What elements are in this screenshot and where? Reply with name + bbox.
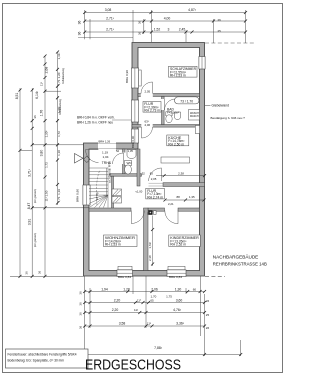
svg-text:36: 36 xyxy=(33,115,37,119)
svg-text:v1,00: v1,00 xyxy=(136,189,143,193)
svg-text:36: 36 xyxy=(79,326,83,330)
svg-text:RH 2,73 m: RH 2,73 m xyxy=(144,109,160,113)
svg-text:1,04: 1,04 xyxy=(103,155,109,159)
svg-text:1,52: 1,52 xyxy=(154,28,161,32)
svg-text:1,20: 1,20 xyxy=(57,72,61,78)
svg-text:2,20: 2,20 xyxy=(114,298,121,302)
svg-text:36: 36 xyxy=(79,312,83,316)
svg-text:8,51: 8,51 xyxy=(15,93,19,100)
svg-text:36: 36 xyxy=(78,21,82,25)
svg-text:Bodenbelag: EG: Spanplatte, d=: Bodenbelag: EG: Spanplatte, d= 30 mm xyxy=(8,359,65,363)
svg-text:BRH 1,26 m v. OKFF neu: BRH 1,26 m v. OKFF neu xyxy=(77,121,113,125)
svg-text:1,72: 1,72 xyxy=(44,162,48,168)
svg-text:1,28: 1,28 xyxy=(123,287,130,291)
svg-text:52: 52 xyxy=(116,149,120,153)
svg-text:1,94: 1,94 xyxy=(101,287,108,291)
svg-text:RH 2,52 m: RH 2,52 m xyxy=(170,243,186,247)
svg-text:Bestätigung b. 946 neu ?: Bestätigung b. 946 neu ? xyxy=(211,116,246,120)
svg-text:3,80: 3,80 xyxy=(40,150,44,157)
svg-text:ERDGESCHOSS: ERDGESCHOSS xyxy=(85,358,181,374)
svg-text:2,68: 2,68 xyxy=(44,67,48,74)
svg-text:BRH 0,84: BRH 0,84 xyxy=(169,275,182,279)
svg-text:(GF grenzen): (GF grenzen) xyxy=(34,233,37,247)
svg-text:2,38: 2,38 xyxy=(148,255,152,261)
svg-text:88: 88 xyxy=(177,195,181,199)
svg-text:1,35: 1,35 xyxy=(128,149,134,153)
svg-text:1,72: 1,72 xyxy=(57,131,61,137)
svg-text:26: 26 xyxy=(206,326,210,330)
svg-text:1,30: 1,30 xyxy=(175,287,182,291)
svg-text:2,71¹: 2,71¹ xyxy=(106,28,115,32)
svg-text:11² 1,50: 11² 1,50 xyxy=(44,190,48,201)
svg-text:8,47: 8,47 xyxy=(27,203,31,210)
svg-text:WC: WC xyxy=(127,161,133,165)
svg-text:26: 26 xyxy=(218,18,222,22)
svg-text:25: 25 xyxy=(218,29,222,33)
svg-text:52: 52 xyxy=(142,171,146,175)
svg-text:2,71¹: 2,71¹ xyxy=(106,17,115,21)
svg-text:3,91: 3,91 xyxy=(27,219,31,226)
svg-text:RH 2,53 m: RH 2,53 m xyxy=(170,74,186,78)
svg-text:11²: 11² xyxy=(134,308,138,312)
svg-text:RH 2,74 m: RH 2,74 m xyxy=(147,195,163,199)
svg-text:25: 25 xyxy=(206,313,210,317)
svg-text:1,19: 1,19 xyxy=(57,189,61,195)
svg-text:Giebelwand: Giebelwand xyxy=(212,104,230,108)
svg-text:2,45: 2,45 xyxy=(179,28,186,32)
svg-text:F=3,16m²: F=3,16m² xyxy=(167,111,179,115)
svg-text:73 / 1,70: 73 / 1,70 xyxy=(180,99,193,103)
svg-text:2,21: 2,21 xyxy=(168,202,174,206)
svg-text:SCH: SCH xyxy=(147,212,153,216)
svg-text:BRH 0,90: BRH 0,90 xyxy=(131,135,135,148)
svg-text:BRH 0,90: BRH 0,90 xyxy=(125,70,129,83)
svg-text:ca 2,04m üb. FFB: ca 2,04m üb. FFB xyxy=(108,162,112,183)
svg-text:2,38: 2,38 xyxy=(178,171,184,175)
svg-text:1,75: 1,75 xyxy=(166,295,172,299)
svg-text:3,08: 3,08 xyxy=(105,8,112,12)
svg-text:60: 60 xyxy=(193,287,197,291)
svg-text:36: 36 xyxy=(25,271,29,275)
svg-text:Fensterbauer: abschließbare Fe: Fensterbauer: abschließbare Fenstergriff… xyxy=(8,353,77,357)
svg-text:1,20²: 1,20² xyxy=(44,131,48,138)
svg-text:16 Stg: 16 Stg xyxy=(95,192,99,200)
svg-text:11²: 11² xyxy=(40,82,44,86)
svg-text:36: 36 xyxy=(138,32,142,36)
svg-text:36: 36 xyxy=(38,271,42,275)
svg-text:Fußabdeckung: Fußabdeckung xyxy=(59,98,62,115)
svg-text:MASCH: MASCH xyxy=(190,115,199,118)
svg-text:1,76: 1,76 xyxy=(40,110,44,117)
svg-text:BRH 0,84: BRH 0,84 xyxy=(118,275,131,279)
svg-text:4,76²: 4,76² xyxy=(173,308,182,312)
svg-text:2,05: 2,05 xyxy=(145,89,151,93)
svg-text:3: 3 xyxy=(168,28,170,32)
svg-text:3,60: 3,60 xyxy=(176,298,183,302)
svg-text:1,63²: 1,63² xyxy=(148,242,152,249)
svg-text:26: 26 xyxy=(206,299,210,303)
svg-text:1,35: 1,35 xyxy=(189,195,195,199)
svg-text:36: 36 xyxy=(79,302,83,306)
svg-text:6,14²: 6,14² xyxy=(35,90,39,99)
svg-text:3,71²: 3,71² xyxy=(27,168,31,177)
svg-text:RH 2,53 m: RH 2,53 m xyxy=(105,243,121,247)
svg-text:1,71: 1,71 xyxy=(57,196,61,202)
svg-text:2,06: 2,06 xyxy=(151,287,158,291)
svg-text:1,19: 1,19 xyxy=(102,150,108,154)
svg-text:BRH 0,84 m v. OKFF vorh.: BRH 0,84 m v. OKFF vorh. xyxy=(77,115,115,119)
svg-text:REHRBRINKSTRASSE 14B: REHRBRINKSTRASSE 14B xyxy=(213,261,267,267)
svg-text:7,88²: 7,88² xyxy=(154,346,163,350)
svg-text:(GF grenzen): (GF grenzen) xyxy=(34,189,37,203)
svg-text:83: 83 xyxy=(150,171,154,175)
svg-text:3,58: 3,58 xyxy=(119,322,126,326)
svg-text:11⁶: 11⁶ xyxy=(137,298,142,302)
svg-text:4,87²: 4,87² xyxy=(188,8,197,12)
svg-text:Fußabdeckung: Fußabdeckung xyxy=(62,67,65,84)
svg-text:2,20: 2,20 xyxy=(112,308,119,312)
svg-text:NACHBARGEBÄUDE: NACHBARGEBÄUDE xyxy=(213,253,258,260)
svg-text:65: 65 xyxy=(150,298,154,302)
svg-text:1,10: 1,10 xyxy=(57,150,61,156)
svg-text:36: 36 xyxy=(138,21,142,25)
svg-text:36: 36 xyxy=(79,291,83,295)
svg-text:2,06: 2,06 xyxy=(145,123,151,127)
svg-text:BRH 1,26: BRH 1,26 xyxy=(99,140,111,144)
svg-text:RH 2,50 m: RH 2,50 m xyxy=(168,142,184,146)
svg-text:2,05: 2,05 xyxy=(151,177,157,181)
svg-text:11²: 11² xyxy=(147,322,151,326)
svg-text:3,36²: 3,36² xyxy=(176,322,185,326)
svg-text:1,31²: 1,31² xyxy=(57,53,61,60)
svg-text:1,71: 1,71 xyxy=(57,79,61,85)
svg-text:BRH 0,90: BRH 0,90 xyxy=(76,189,80,202)
svg-text:36: 36 xyxy=(78,32,82,36)
svg-text:4,00: 4,00 xyxy=(164,17,171,21)
